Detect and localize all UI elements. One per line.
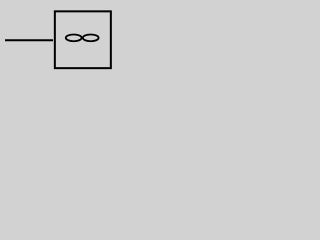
wire xyxy=(5,39,53,41)
amplifier U1 xyxy=(55,11,111,68)
infinity gain symbol xyxy=(66,34,99,41)
